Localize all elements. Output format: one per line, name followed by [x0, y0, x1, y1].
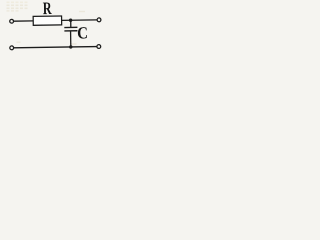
- wire: capacitor top lead: [70, 20, 72, 27]
- wire top-left: terminal to resistor: [14, 20, 33, 22]
- wire: top junction to terminal top-right: [71, 19, 97, 21]
- wire: resistor to top junction: [62, 19, 71, 21]
- terminal top-right: [97, 18, 101, 22]
- terminal bottom-right: [97, 45, 101, 49]
- wire: bottom rail right: [71, 46, 97, 48]
- svg-text:C: C: [77, 25, 88, 43]
- resistor R: [33, 16, 62, 25]
- node: bottom junction: [69, 45, 72, 48]
- wire: capacitor bottom lead: [70, 31, 72, 47]
- terminal top-left: [10, 19, 14, 23]
- capacitor C bottom plate: [64, 30, 77, 32]
- terminal bottom-left: [10, 46, 14, 50]
- wire: bottom rail left: [14, 46, 71, 49]
- node: top junction: [69, 19, 72, 22]
- capacitor C top plate: [64, 26, 77, 28]
- svg-text:R: R: [43, 0, 53, 19]
